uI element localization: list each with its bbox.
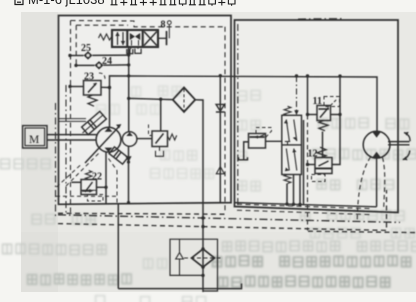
svg-text:8: 8: [161, 20, 166, 31]
check valve 25: [84, 51, 93, 59]
pilot valve drain L: [244, 142, 249, 160]
wire x340 from bus to valve11: [331, 76, 341, 114]
dash-dot boundary vertical left: [65, 85, 67, 213]
wire valve11 bottom to valve12: [322, 132, 324, 158]
valve8 left section arrows: [115, 32, 125, 45]
check valve on drain: [216, 104, 225, 112]
wire check drain vertical: [219, 76, 221, 204]
flow arrowhead on drain line: [216, 167, 224, 174]
bleed-through text rows: [319, 119, 328, 129]
dashed subsystem boundary around valve 22: [56, 195, 118, 197]
charge pump triangle: [126, 132, 132, 136]
wire main pressure bus: [110, 76, 378, 131]
svg-text:11: 11: [313, 96, 322, 107]
pilot dashed diagonal 2: [109, 159, 118, 171]
right valve spring top: [284, 106, 291, 115]
dashed subsystem box B left edge: [70, 21, 72, 214]
node at bus/pilot dashdot: [295, 74, 298, 77]
figure caption (clipped at top edge): [15, 0, 23, 5]
right valve spring bottom: [284, 175, 291, 184]
valve centre T mark: [285, 142, 290, 145]
main directional valve body right: [282, 115, 302, 174]
stroking cylinder axis line: [83, 115, 104, 134]
valve22 outlet wire: [97, 186, 107, 188]
rotation arrows: [403, 132, 410, 160]
node at bus/check drain: [219, 74, 222, 77]
pilot dashed vertical x117: [116, 171, 118, 203]
motor shaft: [388, 142, 410, 145]
valve22 inlet wire left: [72, 181, 82, 183]
bottom drain vertical left: [117, 203, 119, 288]
valve8 spring left: [99, 34, 113, 40]
dashed drain box valve 12: [312, 175, 326, 182]
node at bus/valve8 line: [127, 74, 130, 77]
stroking cylinder tilted: [82, 111, 107, 134]
check valve under charge pump: [125, 156, 131, 162]
pilot valve small box: [249, 134, 266, 149]
proportional valve 8 body: [112, 30, 158, 47]
pilot dashed diagonal 1b: [66, 152, 100, 186]
wire x307 down: [307, 76, 309, 115]
valve8 right section crossed arrows: [144, 32, 157, 46]
bypass check valve: [176, 239, 184, 275]
charge relief tank symbol: [156, 151, 164, 157]
dash-dot machine boundary bottom: [58, 215, 400, 223]
pilot dashed diagonal 1: [57, 165, 82, 188]
electric motor M1 box: [23, 126, 47, 148]
wire valve8 down to charge pump: [128, 47, 130, 132]
relief valve 22: [81, 180, 97, 195]
wire valve12 left to x307: [308, 164, 316, 166]
wire charge pump to relief: [137, 138, 152, 140]
valve arrows bottom box: [285, 149, 297, 172]
charge pump P2: [122, 132, 137, 147]
spring above valve 12: [317, 147, 326, 157]
wire filter branch: [129, 98, 173, 99]
check valve 24: [95, 61, 104, 69]
wire valve23 branch: [70, 86, 84, 88]
wire charge pump down: [128, 146, 130, 203]
dashed pilot box valve 11: [324, 97, 340, 107]
right solid block frame: [298, 18, 342, 20]
motor drain dashed right: [383, 158, 385, 210]
wire check24 branch: [76, 64, 95, 66]
wire check25 branch: [70, 55, 84, 57]
valve 23 reducing valve: [84, 81, 102, 96]
charge relief valve: [152, 131, 168, 147]
node filter branch: [127, 97, 130, 100]
wires valve block bottom to tank bus: [286, 184, 288, 205]
spring below valve 11: [319, 121, 328, 131]
node at bus x307: [306, 74, 309, 77]
dashed subsystem box C top edge: [76, 24, 128, 26]
motor top triangle: [372, 132, 381, 138]
variable displacement arrow: [85, 124, 121, 163]
dashed subsystem box C left edge: [75, 25, 77, 66]
valve8 tank symbols below: [127, 47, 141, 54]
relief valve 11: [317, 106, 331, 121]
svg-text:12: 12: [308, 149, 318, 160]
dashed subsystem box B right edge: [224, 27, 226, 214]
upper link line to stroking cylinder: [59, 119, 87, 122]
node bus corner branch valve23: [108, 86, 111, 89]
valve22 dashed drain box: [88, 195, 104, 202]
filter unit feed line: [202, 239, 204, 292]
svg-text:23: 23: [84, 72, 94, 83]
dashed bracket near 23: [99, 73, 105, 79]
tank bus right block: [235, 203, 377, 207]
svg-text:22: 22: [92, 172, 102, 183]
valve8 pilot end right: [158, 25, 169, 46]
servo cylinder tilted lower right: [109, 147, 128, 164]
charge relief pilot dashes: [149, 125, 153, 136]
dashed long boundary bottom: [58, 190, 387, 230]
left solid block frame: [59, 16, 232, 205]
node check25 tee: [127, 53, 130, 56]
motor bottom triangle: [372, 152, 381, 158]
bottom filter diamond: [184, 249, 222, 267]
spring of valve 22: [86, 171, 92, 180]
wire valve block right vertical: [303, 120, 305, 205]
right block: pilot dash-dot line down: [296, 76, 298, 111]
label 8 with circle: [161, 20, 172, 31]
dash-dot boundary vertical far left: [55, 103, 57, 219]
filter unit box: [170, 239, 218, 291]
svg-text:M-1-6 jL1038: M-1-6 jL1038: [28, 0, 105, 7]
svg-text:24: 24: [102, 56, 112, 67]
dashed inner bottom line right 1: [237, 204, 370, 208]
dashed subsystem box B top edge: [71, 21, 226, 27]
wire valve11 left to x307: [308, 114, 318, 116]
spring of charge relief: [168, 134, 177, 140]
svg-text:M: M: [29, 134, 39, 146]
svg-text:25: 25: [81, 43, 91, 54]
filter F1 diamond: [173, 88, 195, 112]
tank line bottom: [118, 284, 241, 289]
node at bus x340: [338, 74, 341, 77]
motor shaft double line: [47, 135, 97, 140]
wire pump bottom to tank edge: [105, 152, 107, 203]
valve arrows top box: [284, 120, 297, 142]
relief valve 12: [315, 158, 332, 174]
hydraulic motor right: [363, 131, 390, 158]
dashed bottom line left: [58, 212, 225, 215]
wire x340 continues to valve12 right: [332, 115, 340, 165]
pump top flow triangle: [105, 127, 113, 132]
spring of valve 23: [88, 95, 97, 106]
branch down to charge relief: [160, 99, 162, 131]
motor bottom wire: [376, 158, 378, 207]
pilot wire to main valve: [266, 140, 282, 142]
pump bottom flow triangle: [105, 148, 113, 153]
dashed bottom-right stub: [308, 231, 416, 232]
dashed box near pilot valve: [256, 128, 272, 138]
motor drain dashed left: [357, 157, 370, 222]
wire filter to down corner: [195, 100, 203, 239]
dashed inner bottom line right 2: [237, 210, 370, 214]
main variable pump P1: [96, 127, 121, 152]
node check24 tee: [127, 63, 130, 66]
valve8 centre section bowtie: [130, 33, 140, 46]
